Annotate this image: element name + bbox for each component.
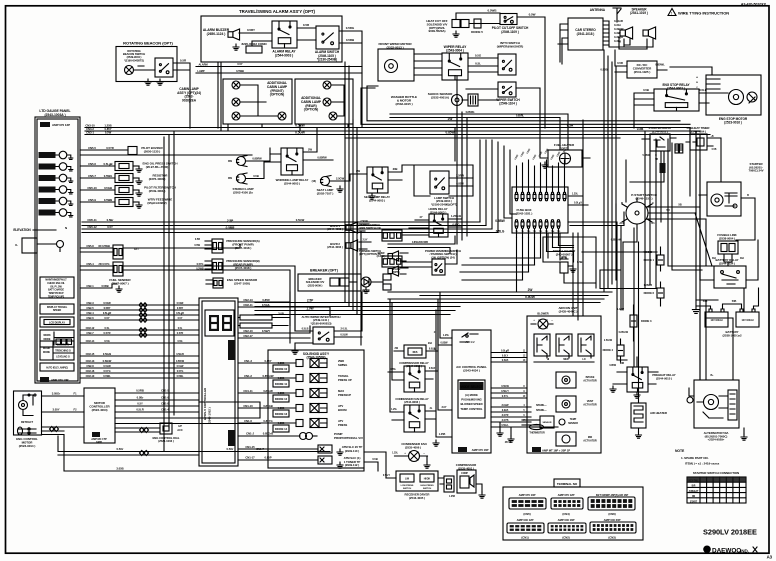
- svg-text:ON: ON: [692, 496, 696, 498]
- power warming switch box: [432, 259, 445, 275]
- svg-text:60B: 60B: [620, 362, 625, 365]
- receiver dryer wires: [383, 475, 444, 478]
- note line 2: [685, 462, 720, 466]
- rotating beacon title: [123, 41, 173, 46]
- vertical bundle right of fuse: [548, 120, 583, 320]
- cabin front wires: [240, 85, 278, 116]
- svg-text:(2544-9003 ): (2544-9003 ): [284, 181, 300, 185]
- aircon unit box: [527, 316, 601, 453]
- svg-text:(2544-4003 ): (2544-4003 ): [327, 227, 343, 231]
- svg-text:DIODE 6: DIODE 6: [644, 291, 655, 295]
- eng stop motor outer box: [706, 75, 761, 115]
- svg-text:(CN1): (CN1): [521, 536, 528, 540]
- aircon blower: [531, 312, 553, 330]
- aircon mix actuator: [556, 432, 597, 446]
- svg-text:STARTER SWITCH CONNECTION: STARTER SWITCH CONNECTION: [693, 471, 739, 475]
- pump proportional valve: [238, 432, 363, 441]
- verticals below starter switch: [617, 222, 639, 392]
- diode feed wires: [582, 252, 657, 289]
- svg-text:CHECK ENG OIL: CHECK ENG OIL: [47, 283, 65, 285]
- ac ground symbols: [497, 422, 514, 444]
- svg-text:DIODE 1: DIODE 1: [644, 258, 655, 262]
- svg-text:(2543-9004 ): (2543-9004 ): [446, 49, 464, 53]
- parking switch conn: [359, 223, 402, 241]
- svg-text:9026)2EA: 9026)2EA: [182, 98, 197, 102]
- svg-text:CN5-11: CN5-11: [87, 218, 97, 222]
- seat lamp: [312, 176, 331, 187]
- svg-text:CN2-7: CN2-7: [86, 331, 94, 335]
- ac resistor box: [394, 342, 438, 358]
- fuse drop turn wires: [460, 246, 574, 281]
- travel/swing alarm assy box: [201, 16, 342, 62]
- svg-text:PROPORTIONAL V/V: PROPORTIONAL V/V: [334, 436, 363, 440]
- epos rows mid: [238, 326, 310, 338]
- diode D6: [644, 282, 664, 306]
- svg-text:(A) MODE: (A) MODE: [465, 393, 478, 397]
- panel cluster text block: [40, 277, 74, 299]
- svg-text:(2542-1031 ): (2542-1031 ): [516, 211, 533, 215]
- svg-text:(2544-9002 ): (2544-9002 ): [667, 86, 685, 90]
- speaker opt pair: [377, 251, 408, 276]
- svg-text:50B: 50B: [732, 300, 737, 303]
- buzzer 1: [327, 220, 369, 233]
- svg-text:!: !: [671, 12, 672, 16]
- ltd gauge panel box: [35, 117, 80, 383]
- svg-text:0.5YG: 0.5YG: [197, 263, 204, 266]
- p-start wires: [611, 160, 706, 266]
- panel bus stub labels: [85, 124, 111, 135]
- seat lamp relay ground: [337, 186, 375, 199]
- svg-text:PRESSUP: PRESSUP: [338, 393, 351, 397]
- svg-text:2.5GW: 2.5GW: [360, 220, 368, 223]
- eng speed sensor connector: [206, 278, 258, 288]
- svg-text:0.5GR: 0.5GR: [177, 302, 184, 305]
- aircon sensor row: [522, 416, 578, 428]
- diode D4: [603, 339, 624, 367]
- fuse box outline: [512, 187, 568, 233]
- svg-text:CN5-6: CN5-6: [88, 162, 96, 166]
- svg-text:(2435-4040C ): (2435-4040C ): [559, 309, 578, 313]
- svg-text:0.5Br: 0.5Br: [107, 218, 115, 222]
- svg-text:SPARE—: SPARE—: [536, 409, 547, 412]
- svg-text:(240-00007 ): (240-00007 ): [556, 252, 573, 256]
- svg-text:3.0B: 3.0B: [278, 312, 284, 316]
- battery relay title: [716, 258, 739, 265]
- svg-text:PUSH&MOVING: PUSH&MOVING: [461, 398, 482, 402]
- svg-text:CN2-10: CN2-10: [243, 329, 253, 333]
- svg-text:0.5B: 0.5B: [712, 149, 717, 151]
- epos side tag: [228, 340, 235, 446]
- svg-text:OIL P LOW: OIL P LOW: [50, 286, 62, 288]
- ac panel left pins: [434, 292, 452, 351]
- wire bus middle labels: [226, 219, 505, 234]
- svg-text:0.85B: 0.85B: [278, 376, 285, 380]
- svg-text:0.85B: 0.85B: [600, 68, 607, 72]
- battery 1: [705, 309, 728, 327]
- horn relay title: [428, 207, 447, 214]
- motor controller box: [84, 388, 115, 443]
- svg-text:0.85Y: 0.85Y: [264, 359, 271, 363]
- dome wire loop: [543, 237, 596, 288]
- svg-text:WIRE TYING INSTRUCTION: WIRE TYING INSTRUCTION: [678, 11, 729, 16]
- pilot cut-off switch: [492, 14, 529, 34]
- svg-text:0.5WB: 0.5WB: [236, 69, 244, 73]
- svg-text:(2549-1104 ): (2549-1104 ): [499, 102, 516, 106]
- svg-text:0.5WB: 0.5WB: [104, 198, 112, 202]
- receiver dryer label: [405, 493, 431, 500]
- model number: [703, 528, 757, 537]
- fuse box bottom drops: [517, 238, 559, 293]
- svg-text:0.5B: 0.5B: [577, 260, 582, 264]
- svg-text:(2532-9013 ): (2532-9013 ): [386, 45, 403, 49]
- svg-text:(2949-112 ): (2949-112 ): [345, 463, 359, 467]
- svg-text:0.5GrB: 0.5GrB: [176, 353, 184, 356]
- svg-text:DAEWOO: DAEWOO: [712, 547, 741, 554]
- svg-text:SWITCH: SWITCH: [403, 488, 412, 490]
- fuse box top row fuses: [515, 148, 568, 201]
- svg-text:CN2-14: CN2-14: [86, 339, 95, 343]
- preheat relay box: [627, 367, 676, 392]
- svg-text:0.5YR: 0.5YR: [104, 331, 111, 335]
- dome lighter symbol: [560, 257, 582, 273]
- svg-text:CN1-4: CN1-4: [161, 408, 169, 412]
- svg-text:0.5Y: 0.5Y: [107, 225, 113, 229]
- eng control motor wires: [42, 392, 365, 472]
- svg-text:ROTATING BEACON (OPT): ROTATING BEACON (OPT): [123, 41, 173, 46]
- vertical bundle far right: [604, 50, 714, 292]
- auto wiper switch ground: [292, 348, 298, 354]
- eng control motor box: [14, 391, 42, 435]
- starter switch connection table: [687, 477, 746, 503]
- ac panel right pins upper: [491, 350, 527, 363]
- compressor relay wires: [388, 303, 437, 381]
- svg-text:0.5LB: 0.5LB: [502, 359, 509, 362]
- svg-text:(2523-1003 ): (2523-1003 ): [158, 439, 174, 443]
- svg-text:AIR 1=2: AIR 1=2: [466, 341, 476, 344]
- svg-text:AUTO IDLE LAMP(G): AUTO IDLE LAMP(G): [46, 367, 68, 370]
- car stereo pins: [603, 19, 624, 45]
- svg-text:*(2190-2549B)(OPT): *(2190-2549B)(OPT): [431, 202, 457, 206]
- svg-text:KET 090WP-16P(S)-GR 16P: KET 090WP-16P(S)-GR 16P: [596, 493, 629, 497]
- vertical bundle center (fuse feed): [457, 76, 516, 244]
- svg-text:1.25GrB: 1.25GrB: [451, 214, 461, 218]
- svg-text:SWITCH: SWITCH: [423, 488, 432, 490]
- svg-text:AMP 070 10P: AMP 070 10P: [519, 493, 536, 497]
- svg-text:0.5Or: 0.5Or: [117, 447, 125, 451]
- wire bus upper (6 lines): [85, 86, 710, 138]
- svg-text:CN2-13: CN2-13: [243, 298, 253, 302]
- auto wiper inter switch box: [313, 327, 334, 344]
- svg-text:(2544-9003 ): (2544-9003 ): [275, 53, 293, 57]
- svg-text:3.0YR: 3.0YR: [502, 414, 509, 417]
- svg-text:0.85B: 0.85B: [278, 406, 285, 410]
- epos resistor bars: [238, 312, 290, 329]
- svg-text:30B: 30B: [393, 167, 398, 171]
- svg-text:0.5RY: 0.5RY: [177, 307, 184, 310]
- svg-text:0.5BW: 0.5BW: [495, 219, 505, 223]
- alarm buzzer ground: [233, 44, 239, 50]
- svg-text:(2541-1025 ): (2541-1025 ): [634, 70, 651, 74]
- panel mode block: [40, 330, 74, 347]
- svg-text:0.5RY: 0.5RY: [247, 28, 255, 32]
- svg-text:1.25B: 1.25B: [449, 496, 455, 498]
- svg-text:LAMP: LAMP: [617, 308, 624, 311]
- svg-text:0.5BR: 0.5BR: [226, 226, 236, 230]
- svg-text:CN1-5: CN1-5: [161, 389, 169, 393]
- svg-text:0.5YL: 0.5YL: [502, 395, 509, 398]
- svg-text:(2547-9007 ): (2547-9007 ): [111, 281, 128, 285]
- panel sensor rows: [80, 162, 177, 209]
- svg-text:0.5LR: 0.5LR: [429, 367, 436, 370]
- svg-text:0.5Y: 0.5Y: [137, 402, 143, 406]
- speaker title: [630, 8, 648, 16]
- condenser fan relay box: [404, 405, 425, 432]
- svg-text:5R: 5R: [666, 208, 669, 212]
- eng control motor pump: [19, 394, 37, 416]
- air heater box: [631, 403, 668, 428]
- svg-text:IND.: IND.: [740, 548, 749, 553]
- svg-text:1.25L: 1.25L: [392, 452, 398, 455]
- eng control dial box: [152, 423, 182, 443]
- svg-text:CN2-10: CN2-10: [86, 374, 95, 378]
- svg-text:AMP 040 16P: AMP 040 16P: [558, 518, 575, 522]
- pressure sensor A connector: [194, 238, 259, 253]
- svg-text:DIODE 11: DIODE 11: [275, 382, 288, 386]
- svg-text:0.5GB: 0.5GB: [104, 186, 112, 190]
- svg-text:0.5Y: 0.5Y: [178, 317, 183, 320]
- fusible link title: [717, 233, 737, 240]
- svg-text:WORK: WORK: [43, 334, 51, 337]
- svg-text:MED: MED: [563, 358, 568, 361]
- svg-text:TERMINAL NO: TERMINAL NO: [557, 482, 578, 486]
- solenoid row DIODE 11: [238, 374, 352, 388]
- svg-text:0.5LB: 0.5LB: [699, 88, 706, 92]
- svg-text:CN2-8: CN2-8: [86, 364, 94, 368]
- svg-text:AMP MT 16P + 20P 1P: AMP MT 16P + 20P 1P: [542, 448, 570, 452]
- svg-text:(2544-4003 ): (2544-4003 ): [327, 245, 343, 249]
- svg-text:(2544-4004 ): (2544-4004 ): [690, 129, 706, 133]
- svg-text:0.5GrB: 0.5GrB: [103, 352, 111, 356]
- svg-text:LAMP: LAMP: [197, 69, 204, 73]
- eng stop motor circle1: [729, 90, 744, 105]
- svg-text:2W: 2W: [308, 148, 312, 152]
- svg-text:1.25WB: 1.25WB: [644, 284, 653, 287]
- svg-text:0.85P: 0.85P: [264, 456, 271, 460]
- svg-text:(2502-7107 ): (2502-7107 ): [317, 191, 334, 195]
- epos controller label: [203, 387, 212, 424]
- svg-text:*(2190-60458TS): *(2190-60458TS): [124, 58, 144, 62]
- washer pump: [452, 94, 479, 106]
- svg-text:(2549-1109 ): (2549-1109 ): [501, 30, 518, 34]
- ac panel labels: [456, 365, 487, 372]
- eng control motor retract: [18, 420, 37, 435]
- svg-text:(OPT): (OPT): [393, 270, 400, 274]
- svg-text:4Y: 4Y: [419, 215, 422, 219]
- svg-text:0.85YG: 0.85YG: [263, 419, 272, 423]
- svg-text:(2949-110 ): (2949-110 ): [345, 449, 359, 453]
- terminal conn CN4: [551, 493, 583, 516]
- starter box: [707, 182, 741, 216]
- terminal conn CN6: [588, 493, 635, 516]
- svg-text:12V 100AH: 12V 100AH: [711, 319, 723, 322]
- svg-text:HI: HI: [547, 358, 550, 361]
- svg-text:MODE: MODE: [43, 351, 50, 354]
- svg-text:(CN4): (CN4): [562, 512, 569, 516]
- solenoid bottom wires: [364, 452, 396, 478]
- eng stop wires: [634, 63, 728, 129]
- pressure sensor B connector: [205, 259, 260, 273]
- note heading: [675, 449, 685, 453]
- svg-text:THERMISTOR: THERMISTOR: [529, 432, 545, 435]
- svg-text:A3-420-5010XX: A3-420-5010XX: [741, 3, 767, 7]
- fuse box bottom row fuses: [515, 220, 560, 238]
- elevation label: [13, 226, 67, 232]
- svg-text:DIGGING O: DIGGING O: [57, 345, 69, 347]
- eng stop motor label: [719, 117, 748, 125]
- ac panel top switch: [460, 333, 478, 344]
- wire tying warning: [668, 9, 729, 16]
- svg-text:CN5-10: CN5-10: [87, 186, 97, 190]
- svg-text:COMP: COMP: [461, 473, 468, 475]
- cabin lamp rear lamp3: [329, 112, 337, 120]
- terminal no outer box: [503, 487, 643, 540]
- svg-text:CN5-5: CN5-5: [88, 146, 96, 150]
- svg-text:(2547-1005): (2547-1005): [234, 282, 250, 286]
- shock sensor circle: [0, 0, 1, 1]
- svg-text:PRESS: PRESS: [338, 423, 347, 427]
- cabin lamp rear lamp1: [323, 81, 331, 89]
- svg-text:2.5P: 2.5P: [227, 219, 234, 223]
- right mid verticals: [630, 138, 721, 222]
- svg-text:AMP 070 12P: AMP 070 12P: [52, 123, 70, 127]
- svg-text:B: B: [747, 194, 749, 197]
- svg-text:0.5B: 0.5B: [637, 127, 644, 131]
- svg-text:CN1-11: CN1-11: [243, 389, 253, 393]
- svg-text:CN5-4: CN5-4: [86, 262, 94, 266]
- svg-text:LCD DISPLAY: LCD DISPLAY: [49, 321, 65, 324]
- svg-text:5B: 5B: [655, 159, 658, 161]
- svg-text:0.5YR: 0.5YR: [106, 146, 114, 150]
- svg-text:0.5GR: 0.5GR: [103, 301, 110, 305]
- svg-text:ITEM( ) = x1 : 2419-xxxx: ITEM( ) = x1 : 2419-xxxxx: [685, 462, 720, 466]
- horn area wires: [388, 236, 455, 254]
- svg-text:TEMP PICKUP: TEMP PICKUP: [48, 293, 64, 295]
- svg-text:CN1-10: CN1-10: [243, 404, 253, 408]
- ac panel right pins low: [491, 404, 547, 422]
- svg-text:(2544-9015 ): (2544-9015 ): [656, 376, 672, 380]
- svg-text:(2523-4004): (2523-4004): [92, 408, 108, 412]
- svg-text:0.5GrY: 0.5GrY: [501, 390, 509, 393]
- breaker right conn: [371, 267, 401, 290]
- panel top tag: [40, 122, 70, 127]
- ac panel box: [452, 330, 491, 453]
- alternator internals: [687, 388, 737, 420]
- battery wires: [697, 288, 759, 309]
- fuel sender connector: [109, 262, 131, 285]
- aircon unit title: [558, 306, 577, 313]
- cabin lamp front lamp4: [278, 112, 286, 120]
- svg-text:0.5LB: 0.5LB: [302, 327, 309, 331]
- washer bottle label: [391, 95, 417, 106]
- svg-text:ALARM: ALARM: [198, 63, 207, 67]
- svg-text:0.85GrW: 0.85GrW: [619, 331, 629, 334]
- speaker wires: [609, 21, 653, 49]
- svg-text:(16): (16): [312, 179, 317, 183]
- svg-text:8220-00412 CONN: 8220-00412 CONN: [242, 42, 267, 46]
- svg-text:0.85GrB/0.5RB: 0.85GrB/0.5RB: [412, 241, 428, 244]
- svg-text:0.85B: 0.85B: [278, 391, 285, 395]
- svg-text:0.85W: 0.85W: [609, 364, 616, 367]
- compressor relay title: [399, 361, 429, 368]
- svg-text:0.5RG: 0.5RG: [346, 26, 355, 30]
- cabin lamp front lamp3: [232, 112, 240, 120]
- svg-text:LO: LO: [582, 358, 585, 361]
- panel auto strip: [40, 363, 74, 371]
- svg-text:B: B: [621, 202, 623, 205]
- svg-text:0.85GrW: 0.85GrW: [263, 374, 274, 378]
- starter title: [749, 162, 764, 173]
- terminal conn CN5: [509, 493, 546, 516]
- svg-text:CN2-15: CN2-15: [86, 352, 95, 356]
- fusible link box: [718, 241, 738, 254]
- svg-text:DIODE 10: DIODE 10: [275, 367, 288, 371]
- svg-text:0.5Or: 0.5Or: [227, 447, 235, 451]
- svg-text:BLOWER: BLOWER: [537, 312, 548, 316]
- svg-text:12V 100AH: 12V 100AH: [742, 319, 754, 322]
- wire ladder panel to epos: [80, 284, 199, 378]
- terminal conn CN1: [507, 518, 544, 540]
- svg-text:RES: RES: [413, 351, 418, 354]
- wire bus lower-b (4 lines): [255, 303, 460, 315]
- svg-text:CN1-2: CN1-2: [244, 374, 252, 378]
- ac panel left pins2: [433, 306, 452, 446]
- harness rows right of ac: [0, 0, 1, 1]
- epos rows upper: [238, 292, 330, 316]
- aircon actuator 2: [556, 396, 597, 412]
- receiver dryer box: [396, 471, 438, 491]
- svg-text:3.0LW: 3.0LW: [502, 404, 510, 407]
- svg-text:(2538-9004 ): (2538-9004 ): [719, 236, 735, 240]
- solenoid row DIODE 12: [238, 389, 351, 403]
- fuse box top feeds: [0, 0, 1, 1]
- svg-text:0.85GrB: 0.85GrB: [263, 432, 273, 436]
- fuel heater title: [554, 143, 575, 150]
- front wiper motor box: [378, 42, 414, 81]
- svg-text:(2547-4018 ): (2547-4018 ): [235, 266, 252, 270]
- diode D3: [617, 305, 652, 341]
- svg-text:0.5BrW: 0.5BrW: [103, 359, 112, 363]
- shock sensor symbol: [0, 0, 1, 1]
- svg-text:0.5YR: 0.5YR: [177, 332, 184, 335]
- motor controller bottom tag: [91, 432, 107, 444]
- cabin lamp assy label: [177, 87, 201, 102]
- svg-text:CN1-6: CN1-6: [244, 419, 252, 423]
- horn relay box: [429, 214, 448, 237]
- aircon transistor 2: [556, 334, 572, 358]
- breaker opt title: [310, 269, 339, 273]
- svg-text:C: C: [652, 202, 654, 205]
- svg-text:AMP 070 16P: AMP 070 16P: [472, 448, 489, 452]
- svg-text:0.85BrW: 0.85BrW: [611, 238, 622, 242]
- svg-text:0.5GrY: 0.5GrY: [383, 475, 391, 477]
- breaker box: [298, 274, 361, 291]
- wire bus lower labels: [306, 288, 534, 311]
- motor controller rows: [115, 389, 260, 424]
- cabin lamp feed wires: [228, 124, 348, 131]
- thermistor: [0, 0, 1, 1]
- antenna: [590, 8, 621, 22]
- heat cut off ground: [453, 31, 459, 37]
